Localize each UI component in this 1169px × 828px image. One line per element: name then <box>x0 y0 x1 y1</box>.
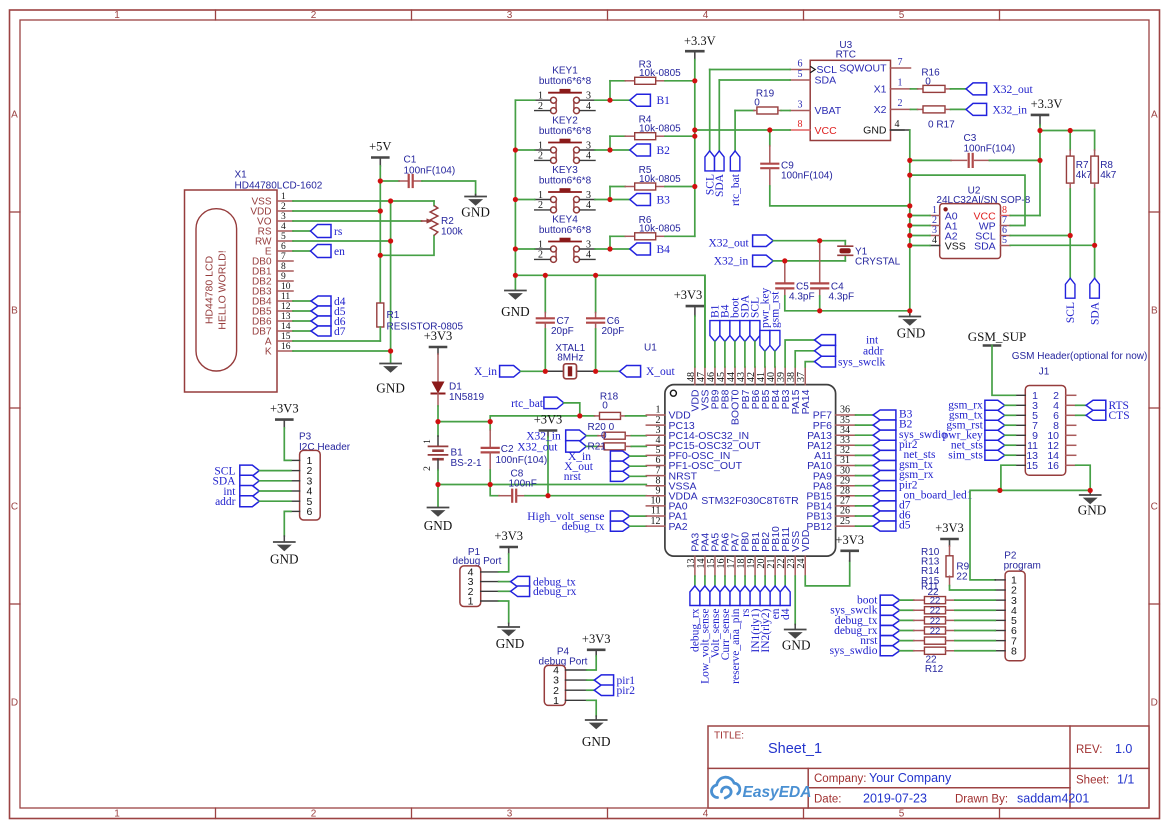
svg-text:10k-0805: 10k-0805 <box>639 68 681 79</box>
wire <box>970 490 1000 580</box>
resistor R16 <box>911 88 918 90</box>
svg-text:en: en <box>334 246 345 258</box>
svg-text:+3V3: +3V3 <box>534 413 563 427</box>
junction <box>577 413 582 418</box>
svg-text:K: K <box>265 347 272 358</box>
svg-text:PA14: PA14 <box>800 389 812 414</box>
net flag pwr_key <box>760 330 770 351</box>
svg-text:5: 5 <box>899 809 905 820</box>
power +3V3 P3 <box>276 418 292 421</box>
svg-text:7: 7 <box>898 57 903 68</box>
net flag B3 right <box>856 414 874 416</box>
junction <box>1037 158 1042 163</box>
diode D1 <box>437 354 439 382</box>
logo EasyEDA <box>711 777 739 798</box>
svg-text:GSM_SUP: GSM_SUP <box>968 329 1027 344</box>
svg-text:GND: GND <box>897 326 926 341</box>
power +3V3 pin24 <box>805 561 849 586</box>
wire <box>1010 244 1094 246</box>
wire <box>379 327 381 341</box>
power +3V3 P4 <box>588 648 604 651</box>
svg-text:saddam4201: saddam4201 <box>1017 792 1089 806</box>
svg-text:X_out: X_out <box>646 366 676 378</box>
svg-text:1: 1 <box>281 192 286 202</box>
net flag SDA <box>719 79 790 81</box>
ground <box>380 363 401 365</box>
svg-text:A: A <box>1151 110 1158 121</box>
wire <box>293 350 391 352</box>
junction <box>607 147 612 152</box>
capacitor C4 <box>819 241 821 246</box>
svg-text:d7: d7 <box>334 326 346 338</box>
svg-text:R2: R2 <box>441 216 454 227</box>
net flag B2 <box>610 149 630 151</box>
junction <box>907 308 912 313</box>
svg-text:2: 2 <box>538 250 543 261</box>
svg-text:D: D <box>1151 698 1158 709</box>
svg-text:pir2: pir2 <box>617 685 636 697</box>
net flag gsm_rx right <box>856 475 874 477</box>
net flag SCL <box>710 69 790 71</box>
net flag Low_volt_sense bottom <box>704 576 706 586</box>
capacitor C5 <box>784 261 786 284</box>
svg-text:0: 0 <box>754 97 760 108</box>
crystal Y1 <box>844 241 846 245</box>
svg-text:1.0: 1.0 <box>1115 742 1132 756</box>
svg-text:7: 7 <box>281 252 286 262</box>
ground P3 <box>284 511 291 536</box>
resistor R4 <box>610 135 625 137</box>
svg-text:22: 22 <box>956 571 968 582</box>
svg-text:100nF(104): 100nF(104) <box>404 166 456 177</box>
svg-text:1: 1 <box>553 695 559 707</box>
svg-text:2: 2 <box>311 10 317 21</box>
svg-text:D: D <box>11 698 18 709</box>
svg-text:+3.3V: +3.3V <box>1031 97 1063 111</box>
wire <box>910 175 1025 225</box>
svg-text:SQWOUT: SQWOUT <box>839 63 887 75</box>
power +3.3V <box>686 50 703 53</box>
junction <box>378 253 383 258</box>
svg-text:X32_in: X32_in <box>993 104 1028 116</box>
svg-text:GND: GND <box>376 381 405 396</box>
net flag CTS <box>1076 414 1086 416</box>
capacitor C3 <box>910 159 951 161</box>
svg-text:1: 1 <box>898 78 903 89</box>
net flag net_sts right <box>856 454 874 456</box>
svg-text:1: 1 <box>423 439 433 444</box>
junction <box>907 213 912 218</box>
svg-text:X32_out: X32_out <box>517 441 558 453</box>
svg-text:rtc_bat: rtc_bat <box>511 398 544 410</box>
resistor 22 row boot <box>880 595 900 605</box>
svg-text:14: 14 <box>281 322 291 332</box>
wire <box>515 99 534 101</box>
net flag B3 <box>610 199 630 201</box>
wire <box>293 340 380 342</box>
net flag en <box>293 250 311 252</box>
junction <box>1092 243 1097 248</box>
svg-text:GND: GND <box>582 734 611 749</box>
capacitor C6 <box>595 275 597 312</box>
svg-text:P3: P3 <box>299 431 312 442</box>
svg-text:10k-0805: 10k-0805 <box>639 124 681 135</box>
wire <box>704 275 706 367</box>
capacitor C1 <box>380 180 399 182</box>
svg-text:100nF: 100nF <box>509 479 537 490</box>
net flag d5 right <box>856 525 874 527</box>
junction <box>435 482 440 487</box>
svg-text:STM32F030C8T6TR: STM32F030C8T6TR <box>701 495 799 507</box>
wire <box>515 199 534 201</box>
svg-text:11: 11 <box>281 292 290 302</box>
net flag B4 <box>610 248 630 250</box>
net flag Curr_sense bottom <box>724 576 726 586</box>
svg-text:SDA: SDA <box>1089 301 1101 325</box>
svg-text:button6*6*8: button6*6*8 <box>539 126 592 137</box>
svg-text:CTS: CTS <box>1109 410 1130 422</box>
svg-text:8: 8 <box>798 119 803 130</box>
junction <box>607 98 612 103</box>
svg-text:GND: GND <box>782 638 811 653</box>
svg-text:100nF(104): 100nF(104) <box>964 143 1016 154</box>
svg-text:2: 2 <box>538 101 543 112</box>
junction <box>607 197 612 202</box>
wire <box>422 181 476 195</box>
ground <box>514 275 516 289</box>
resistor 22 row nrst <box>880 636 900 646</box>
svg-text:on_board_led1: on_board_led1 <box>904 489 973 501</box>
resistor R17 <box>911 108 918 110</box>
junction <box>488 419 493 424</box>
svg-text:Drawn By:: Drawn By: <box>955 794 1008 806</box>
resistor R19 <box>735 110 754 112</box>
wire <box>293 210 380 212</box>
svg-text:HD44780 LCD: HD44780 LCD <box>204 255 216 324</box>
junction <box>1037 128 1042 133</box>
junction <box>782 258 787 263</box>
svg-text:C: C <box>11 502 18 513</box>
svg-text:TITLE:: TITLE: <box>714 731 744 742</box>
junction <box>513 246 518 251</box>
net flag on_board_led1 right <box>856 495 874 497</box>
svg-text:GND: GND <box>863 125 887 137</box>
wire <box>595 199 610 201</box>
svg-text:2: 2 <box>281 202 286 212</box>
svg-text:4.3pF: 4.3pF <box>829 291 855 302</box>
net flag B2 right <box>856 424 874 426</box>
svg-text:button6*6*8: button6*6*8 <box>539 225 592 236</box>
resistor R7 <box>1069 131 1071 151</box>
svg-text:100nF(104): 100nF(104) <box>496 455 548 466</box>
junction <box>817 238 822 243</box>
svg-text:4: 4 <box>703 809 709 820</box>
power +3V3 C8 <box>540 429 556 432</box>
net flag reserve_ana_pin bottom <box>734 576 736 586</box>
svg-text:GND: GND <box>270 552 299 567</box>
svg-text:sys_swclk: sys_swclk <box>838 356 886 368</box>
power +3V3 R9 <box>942 538 958 541</box>
svg-text:VCC: VCC <box>815 125 838 137</box>
svg-text:4: 4 <box>586 151 591 162</box>
junction <box>692 184 697 189</box>
junction <box>543 369 548 374</box>
svg-text:4k7: 4k7 <box>1076 170 1093 181</box>
svg-text:22: 22 <box>930 626 941 637</box>
capacitor C9 <box>769 130 771 146</box>
net flag sys_swclk <box>805 362 814 367</box>
svg-text:C: C <box>1151 502 1158 513</box>
junction <box>543 273 548 278</box>
svg-text:GND: GND <box>496 636 525 651</box>
wire <box>390 201 392 362</box>
junction <box>593 273 598 278</box>
wire <box>595 149 610 151</box>
svg-text:15: 15 <box>281 332 291 342</box>
ground P4 <box>587 700 597 716</box>
svg-text:KEY2: KEY2 <box>552 116 578 127</box>
svg-text:X32_out: X32_out <box>993 84 1034 96</box>
svg-text:GND: GND <box>461 205 490 220</box>
net flag debug_rx bottom <box>694 576 696 586</box>
svg-text:0: 0 <box>925 76 931 87</box>
net flag X_out <box>596 370 620 372</box>
junction <box>378 208 383 213</box>
net flag rs bottom <box>744 576 746 586</box>
wire <box>1076 465 1091 490</box>
wire <box>910 235 930 237</box>
junction <box>997 488 1002 493</box>
svg-text:8MHz: 8MHz <box>557 353 583 364</box>
wire <box>293 220 422 222</box>
svg-text:2019-07-23: 2019-07-23 <box>863 792 927 806</box>
wire <box>820 310 910 312</box>
svg-text:R1: R1 <box>387 310 400 321</box>
svg-text:SDA: SDA <box>974 241 996 253</box>
svg-text:rs: rs <box>334 226 343 238</box>
net flag d7 <box>293 330 311 332</box>
svg-text:8: 8 <box>1011 645 1017 657</box>
resistor R1 <box>377 303 384 327</box>
svg-text:VBAT: VBAT <box>815 105 842 117</box>
junction <box>378 178 383 183</box>
junction <box>907 203 912 208</box>
capacitor C2 <box>489 422 491 430</box>
resistor 22 row debug_rx <box>880 626 900 636</box>
svg-text:100k: 100k <box>441 227 464 238</box>
svg-text:+3V3: +3V3 <box>424 329 453 343</box>
resistor R5 <box>610 186 625 188</box>
resistor R6 <box>610 235 625 237</box>
svg-text:debug_tx: debug_tx <box>562 521 605 533</box>
svg-text:B: B <box>1151 306 1158 317</box>
svg-text:6: 6 <box>307 506 313 518</box>
resistor R9 <box>949 546 951 557</box>
wire <box>1010 235 1070 237</box>
net flag pir2 right <box>856 485 874 487</box>
net flag boot top <box>730 321 740 342</box>
svg-text:SDA: SDA <box>815 75 837 87</box>
svg-text:gsm_rst: gsm_rst <box>770 291 782 328</box>
junction <box>607 246 612 251</box>
svg-text:3: 3 <box>281 212 286 222</box>
svg-text:16: 16 <box>281 342 291 352</box>
junction <box>692 127 697 132</box>
svg-text:3: 3 <box>798 99 803 110</box>
svg-text:KEY3: KEY3 <box>552 165 578 176</box>
svg-text:C1: C1 <box>404 154 417 165</box>
svg-text:12: 12 <box>651 516 661 527</box>
svg-text:Company:: Company: <box>814 773 866 785</box>
power +3V3 P1 <box>501 546 517 549</box>
junction <box>907 173 912 178</box>
svg-text:1/1: 1/1 <box>1117 773 1134 787</box>
svg-text:HELLO WORLD!: HELLO WORLD! <box>217 250 229 329</box>
svg-text:6: 6 <box>798 58 803 69</box>
svg-text:GSM Header(optional for now): GSM Header(optional for now) <box>1012 351 1148 362</box>
svg-text:+3V3: +3V3 <box>270 402 299 416</box>
net flag SCL top <box>750 321 760 342</box>
svg-text:+3V3: +3V3 <box>494 529 523 543</box>
svg-text:24: 24 <box>796 559 807 569</box>
svg-text:2: 2 <box>538 151 543 162</box>
wire <box>910 245 930 247</box>
svg-text:15: 15 <box>1026 460 1038 472</box>
resistor 22 row debug_tx <box>880 615 900 625</box>
ground U1 VSS23 <box>794 576 796 624</box>
wire <box>694 60 696 237</box>
svg-text:sim_sts: sim_sts <box>948 449 983 461</box>
power +3.3V right <box>1032 114 1048 117</box>
net flag RTS <box>1076 404 1086 406</box>
svg-text:4.3pF: 4.3pF <box>789 291 815 302</box>
junction <box>388 238 393 243</box>
svg-text:REV:: REV: <box>1076 744 1102 756</box>
svg-text:+3V3: +3V3 <box>582 632 611 646</box>
wire <box>514 100 516 275</box>
capacitor C8 <box>490 485 499 496</box>
net flag debug_tx P1 <box>499 581 511 583</box>
battery B1 <box>437 422 439 436</box>
junction <box>692 134 697 139</box>
svg-text:0: 0 <box>602 400 608 411</box>
resistor R8 <box>1094 131 1096 151</box>
power +5V <box>372 156 388 159</box>
title block <box>708 726 1149 808</box>
svg-text:J1: J1 <box>1039 366 1050 377</box>
svg-text:nrst: nrst <box>564 471 582 483</box>
wire <box>695 129 790 131</box>
wire <box>1039 125 1041 216</box>
wire <box>1010 215 1040 217</box>
svg-text:PA2: PA2 <box>669 521 688 533</box>
svg-text:BS-2-1: BS-2-1 <box>451 458 483 469</box>
wire <box>1001 465 1090 490</box>
net flag IN1(rly1) bottom <box>754 576 756 586</box>
wire <box>595 99 610 101</box>
resistor R18 <box>580 415 595 417</box>
svg-text:A: A <box>11 110 18 121</box>
wire <box>910 225 930 227</box>
svg-text:VSS: VSS <box>945 241 966 253</box>
svg-text:d4: d4 <box>780 608 792 620</box>
net flag sys_swdio right <box>856 434 874 436</box>
svg-text:20pF: 20pF <box>551 326 574 337</box>
svg-text:CRYSTAL: CRYSTAL <box>855 256 901 267</box>
svg-text:button6*6*8: button6*6*8 <box>539 176 592 187</box>
wire <box>438 484 646 486</box>
junction <box>1068 233 1073 238</box>
junction <box>907 223 912 228</box>
svg-text:2: 2 <box>311 809 317 820</box>
junction <box>488 482 493 487</box>
svg-text:+3.3V: +3.3V <box>684 34 716 48</box>
net flag gsm_tx right <box>856 465 874 467</box>
resistor 22 row sys_swclk <box>880 605 900 615</box>
wire <box>910 215 930 217</box>
net flag SDA bottom <box>1094 245 1096 278</box>
svg-text:5: 5 <box>899 10 905 21</box>
resistor 22 row sys_swdio <box>880 646 900 656</box>
net flag B1 <box>610 99 630 101</box>
svg-text:rtc_bat: rtc_bat <box>730 173 742 206</box>
wire <box>515 275 705 367</box>
svg-text:0: 0 <box>601 431 607 442</box>
svg-text:12: 12 <box>281 302 291 312</box>
capacitor C7 <box>544 275 546 312</box>
net flag addr <box>795 351 814 367</box>
net flag d6 right <box>856 515 874 517</box>
svg-text:Your Company: Your Company <box>869 771 952 785</box>
svg-text:6: 6 <box>281 242 286 252</box>
junction <box>767 127 772 132</box>
ground <box>437 485 439 507</box>
svg-text:+3V3: +3V3 <box>835 533 864 547</box>
junction <box>388 348 393 353</box>
net flag int <box>785 340 814 367</box>
net flag IN2(rly2) bottom <box>764 576 766 586</box>
net flag rtc_bat <box>734 111 736 151</box>
svg-text:10: 10 <box>281 282 291 292</box>
net flag d4 <box>293 300 311 302</box>
svg-text:d5: d5 <box>899 520 911 532</box>
junction <box>545 493 550 498</box>
svg-text:5: 5 <box>1002 235 1007 246</box>
svg-text:EasyEDA: EasyEDA <box>743 784 812 801</box>
svg-text:100nF(104): 100nF(104) <box>781 171 833 182</box>
junction <box>513 197 518 202</box>
net flag d5 <box>293 310 311 312</box>
power +3V3 D1 <box>430 346 446 349</box>
svg-text:4: 4 <box>586 250 591 261</box>
svg-text:1: 1 <box>468 596 474 608</box>
wire <box>379 166 381 303</box>
svg-text:13: 13 <box>281 312 291 322</box>
net flag X32_in <box>966 103 987 115</box>
net flag pir2 P4 <box>587 689 595 691</box>
net flag d6 <box>293 320 311 322</box>
wire <box>490 416 580 422</box>
svg-text:10k-0805: 10k-0805 <box>639 224 681 235</box>
wire <box>1040 130 1095 132</box>
svg-text:button6*6*8: button6*6*8 <box>539 76 592 87</box>
svg-text:GND: GND <box>1078 503 1107 518</box>
svg-text:B1: B1 <box>657 95 671 107</box>
svg-text:program: program <box>1004 561 1041 572</box>
svg-text:4: 4 <box>586 200 591 211</box>
wire <box>438 421 490 423</box>
svg-text:Date:: Date: <box>814 794 842 806</box>
